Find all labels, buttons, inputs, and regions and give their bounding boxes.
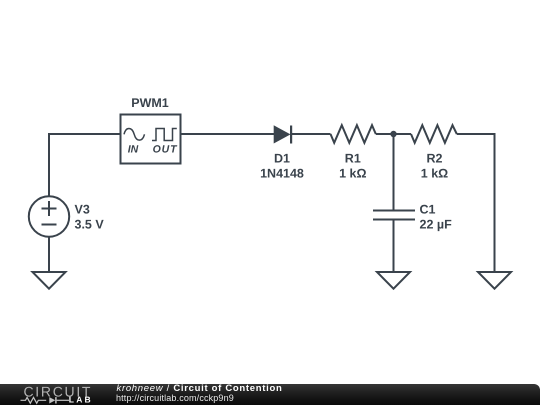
V3 plus sign — [42, 201, 57, 216]
svg-text:PWM1: PWM1 — [131, 96, 169, 110]
wire: V3 bottom to left ground — [48, 237, 50, 273]
svg-text:22 µF: 22 µF — [420, 218, 453, 232]
svg-text:LAB: LAB — [69, 394, 93, 404]
svg-text:1N4148: 1N4148 — [260, 167, 304, 181]
PWM1 square wave icon — [152, 129, 177, 141]
svg-text:D1: D1 — [274, 152, 290, 166]
V3 minus sign — [42, 224, 57, 226]
svg-text:1 kΩ: 1 kΩ — [339, 167, 366, 181]
logo diode triangle icon — [49, 397, 55, 403]
ground (middle, under C1) — [377, 272, 410, 289]
logo diode cathode bar icon — [55, 397, 57, 403]
junction node dot — [390, 131, 396, 137]
capacitor C1 plates — [373, 211, 415, 220]
ground (left) — [33, 272, 66, 289]
wire: top-left horizontal from corner to PWM1 input — [49, 133, 120, 135]
voltage source V3 circle — [29, 196, 69, 236]
wire: diode cathode to R1 — [291, 133, 331, 135]
resistor R2 zigzag — [411, 125, 457, 143]
svg-text:3.5 V: 3.5 V — [75, 218, 105, 232]
PWM1 sine wave icon — [124, 128, 145, 140]
diode D1 cathode bar — [290, 126, 292, 144]
credit text — [117, 383, 283, 394]
wire: PWM1 output to diode anode — [181, 133, 274, 135]
wire: C1 bottom plate down to middle ground — [393, 220, 395, 273]
wire: junction node to R2 — [394, 133, 412, 135]
wire: left vertical from corner down to V3 top — [48, 133, 50, 197]
wire: junction down to C1 top plate — [393, 134, 395, 211]
svg-text:R1: R1 — [345, 152, 361, 166]
footer credit bar — [0, 384, 540, 405]
svg-text:R2: R2 — [427, 152, 443, 166]
CircuitLab logo — [0, 384, 110, 405]
svg-text:1 kΩ: 1 kΩ — [421, 167, 448, 181]
diode D1 anode triangle — [274, 125, 291, 143]
logo wire to LAB — [57, 399, 69, 401]
logo resistor zigzag icon — [21, 397, 47, 403]
svg-text:IN: IN — [128, 144, 139, 156]
svg-text:C1: C1 — [420, 202, 436, 216]
svg-text:V3: V3 — [75, 202, 90, 216]
wire: R2 to right corner and down to right ground — [457, 134, 495, 272]
resistor R1 zigzag — [331, 125, 376, 143]
svg-text:OUT: OUT — [153, 144, 179, 156]
wire: R1 to junction node — [376, 133, 394, 135]
PWM1 box — [121, 115, 181, 164]
ground (right) — [478, 272, 511, 289]
